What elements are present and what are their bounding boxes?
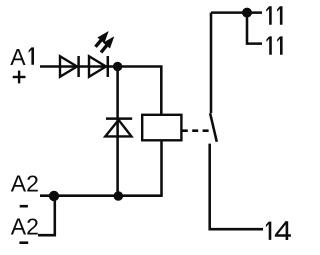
wire A2 rail <box>40 194 163 197</box>
junction node 11 rail <box>242 8 252 18</box>
wire lever to terminal 14 <box>210 144 263 230</box>
LED emission arrow 1 <box>96 31 109 47</box>
terminal label 11 second <box>266 36 271 54</box>
LED emission arrow 2 <box>101 36 114 52</box>
svg-text:A: A <box>10 44 26 70</box>
relay coil K1 <box>142 115 181 141</box>
plus polarity mark <box>13 71 26 84</box>
LED diode D2 <box>89 56 108 77</box>
svg-text:A2: A2 <box>11 170 39 196</box>
freewheeling diode D3 <box>105 119 132 137</box>
switch lever <box>210 113 217 142</box>
junction node A2 branch <box>49 191 59 201</box>
terminal label 11 first <box>266 6 271 24</box>
wire coil bottom to A2 rail <box>160 140 163 195</box>
junction node on A1 wire <box>113 62 122 71</box>
diode D1 <box>60 56 79 77</box>
dashed actuator link coil to contact <box>182 129 209 132</box>
wire top rail to terminal 11 <box>211 11 262 14</box>
terminal label 14 <box>266 222 271 240</box>
minus polarity mark 1 <box>20 205 28 208</box>
svg-text:A2: A2 <box>11 213 39 239</box>
switch fixed contact line from 11 <box>210 13 213 113</box>
junction node A2 diode <box>114 191 124 201</box>
wire A1 rail to coil top <box>40 67 161 115</box>
minus polarity mark 2 <box>19 241 28 244</box>
wire second A2 branch <box>38 196 55 235</box>
wire junction down to A2 rail <box>116 67 119 196</box>
wire branch to second terminal 11 <box>247 13 262 44</box>
